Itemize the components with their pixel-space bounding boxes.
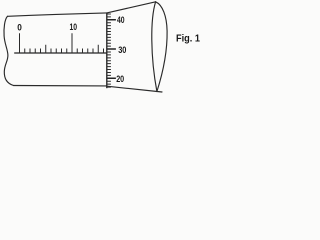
thimble scale tick marks [107,14,111,87]
thimble outer right broken edge [156,2,168,92]
svg-text:Fig. 1: Fig. 1 [176,33,200,44]
thimble top edge [107,2,156,13]
svg-text:30: 30 [118,44,126,55]
svg-text:10: 10 [70,21,78,32]
sleeve left broken edge [4,16,14,85]
thimble bottom edge [107,86,162,92]
thimble left edge [106,13,108,88]
sleeve datum line [14,52,107,54]
svg-text:40: 40 [117,14,125,25]
svg-text:0: 0 [17,21,22,32]
sleeve top edge [8,13,107,16]
sleeve bottom edge [14,85,107,87]
sleeve scale tick marks [20,33,104,53]
svg-text:20: 20 [116,73,124,84]
thimble inner broken edge [152,2,157,92]
thimble major graduation dashes [107,20,116,79]
